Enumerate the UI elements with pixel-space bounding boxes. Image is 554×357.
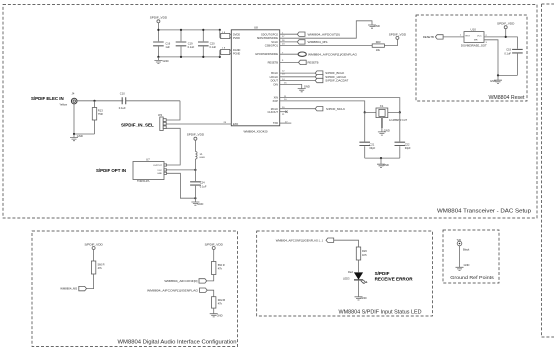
frame: adjacent sheet border (clipped at right edge) [542, 4, 554, 337]
wire CSB pin to pull-up R23 [280, 43, 373, 45]
power SPDIF_VDD (left pull-up) [84, 242, 103, 261]
resistor R25 [207, 262, 225, 281]
node junction at R13 top [93, 100, 95, 102]
svg-text:TORX147L: TORX147L [137, 179, 150, 183]
svg-text:47k: 47k [98, 266, 103, 270]
node junction at U10 VCC [505, 36, 507, 38]
node junction at J4 ground [73, 133, 75, 135]
svg-text:CLKOUT: CLKOUT [267, 110, 278, 114]
svg-text:R26: R26 [362, 249, 367, 253]
wire GPO0 pin [280, 52, 298, 54]
svg-text:U10: U10 [471, 28, 477, 32]
wire decoupling bottom rail [158, 56, 219, 58]
node WM8804_AIFCONF[0] [164, 279, 206, 283]
svg-text:R22-B: R22-B [218, 298, 226, 302]
wire LRCLK pin [280, 73, 316, 77]
wire TXD pin (n.c.) [280, 122, 292, 124]
wire reset ground rail [498, 74, 517, 76]
wire bead to VCC node and C24 [194, 159, 196, 181]
capacitor C24 [190, 180, 207, 198]
frame: Ground Ref Points box [443, 230, 499, 283]
svg-text:GND: GND [464, 263, 470, 267]
svg-text:WM8804_AIFCONF[1]/GENFLAG: WM8804_AIFCONF[1]/GENFLAG [308, 52, 358, 56]
ground at test point [456, 267, 464, 270]
frame: WM8804 Reset box [416, 15, 527, 101]
wire ground to DGND/PGND pins [220, 48, 232, 57]
svg-text:RST: RST [466, 36, 471, 38]
svg-text:Ground Ref Points: Ground Ref Points [450, 275, 494, 280]
svg-text:33pF: 33pF [405, 146, 411, 150]
svg-text:WM8804_AIFDOUT[0]: WM8804_AIFDOUT[0] [308, 32, 340, 36]
svg-text:SPDIF_VDD: SPDIF_VDD [497, 22, 515, 26]
ground at SDIN tie [368, 24, 380, 28]
wire CLKOUT pin (n.c.) [280, 111, 288, 116]
svg-text:J4: J4 [72, 92, 75, 96]
wire decoupling top rail [158, 29, 219, 31]
svg-text:PVDD: PVDD [233, 37, 240, 40]
svg-text:U8: U8 [254, 26, 258, 30]
svg-text:75R: 75R [98, 112, 103, 116]
svg-text:GND: GND [217, 313, 223, 317]
svg-text:S/PDIF_VDD: S/PDIF_VDD [205, 242, 224, 246]
svg-text:C22: C22 [405, 142, 410, 146]
svg-text:C19: C19 [506, 47, 511, 51]
svg-text:SCLK: SCLK [271, 40, 278, 44]
svg-text:X1: X1 [380, 104, 384, 108]
svg-text:27: 27 [282, 36, 285, 38]
ground at crystal case [378, 118, 390, 135]
node junctions at crystal [364, 111, 401, 113]
crystal X1 12.288MHz [365, 104, 408, 122]
svg-text:0.1uF: 0.1uF [188, 45, 195, 49]
svg-text:GND: GND [157, 173, 162, 175]
svg-text:1K5: 1K5 [362, 253, 367, 257]
ground at J4 [70, 134, 83, 141]
svg-text:WM8804_AIFCONF[1]/GENFLAG: WM8804_AIFCONF[1]/GENFLAG [147, 288, 199, 292]
wire DOUT pin [280, 79, 316, 81]
svg-text:GND: GND [361, 296, 367, 300]
frame: WM8804 Transceiver - DAC Setup sheet box [3, 5, 537, 219]
power SPDIF_VDD (right pull-up) [205, 242, 224, 261]
svg-text:12.288MHZ CUT: 12.288MHZ CUT [389, 119, 408, 122]
svg-text:RECEIVE ERROR: RECEIVE ERROR [375, 276, 414, 281]
connector J4 (RCA jack) [59, 92, 77, 107]
svg-text:0.1uF: 0.1uF [119, 106, 126, 110]
svg-text:SPDIF_VDD: SPDIF_VDD [187, 133, 205, 137]
capacitor C20 [198, 30, 217, 57]
svg-text:13: 13 [282, 73, 285, 75]
power SPDIF_VDD at optical receiver [187, 133, 205, 152]
svg-text:SPDIF_VDD: SPDIF_VDD [389, 33, 407, 37]
wire SDOUT pin 1 [280, 33, 298, 35]
wire pin 28 EXD from input select header [166, 122, 231, 124]
svg-text:WM8804_MS: WM8804_MS [308, 40, 328, 44]
svg-text:1uF: 1uF [165, 45, 170, 49]
node S/PDIF_LRCLK [315, 75, 346, 79]
svg-text:23: 23 [282, 43, 285, 45]
node junctions on decoupling rails [157, 29, 221, 58]
svg-text:560 R: 560 R [98, 262, 105, 266]
capacitor C21 (XOP load) [359, 112, 375, 158]
wire SCLK pin [280, 40, 298, 42]
svg-text:10k: 10k [376, 48, 381, 52]
svg-text:SPDIF_VDD: SPDIF_VDD [150, 16, 168, 20]
svg-text:12: 12 [282, 71, 285, 73]
ground at DIN [298, 85, 310, 92]
svg-text:GPO0/SW/IFMODE: GPO0/SW/IFMODE [255, 52, 278, 56]
wire R23 to supply [384, 39, 397, 45]
wire pull-down to R26 [207, 290, 214, 297]
svg-text:WM8804_AIFCONF[1]/GENFLAG [...: WM8804_AIFCONF[1]/GENFLAG [...] [276, 238, 323, 242]
frame: WM8804 S/PDIF Input Status LED box [257, 231, 433, 316]
wire J4 to C10 [77, 100, 123, 102]
svg-text:WM8804 Transceiver - DAC Setup: WM8804 Transceiver - DAC Setup [437, 209, 531, 215]
capacitor C16 [153, 30, 171, 57]
svg-text:0.1uF: 0.1uF [210, 45, 217, 49]
node junction U7 VCC [194, 169, 196, 171]
diode LED3 (red) [343, 270, 368, 284]
wire J4 down to ground rail [74, 104, 95, 134]
svg-text:S/PDIF: S/PDIF [375, 271, 390, 276]
node WM8804_MS [297, 40, 327, 44]
capacitor C10 [119, 92, 180, 110]
node WM8804_AIFDOUT[0] [297, 32, 339, 36]
wire U10 MR pin 3 to ground rail [484, 40, 498, 76]
resistor R24 [87, 261, 105, 289]
node S/PDIF_BCLK [315, 71, 344, 75]
wire test point to ground [459, 246, 461, 267]
power SPDIF_VDD (decoupling bank) [150, 16, 168, 30]
ground at LED [355, 296, 367, 300]
wire supply to DVDD/PVDD pins [220, 30, 232, 39]
svg-text:EXD: EXD [233, 123, 238, 126]
svg-text:1: 1 [460, 35, 462, 37]
node WM8804_AIFCONF[1]/GENFLAG (pull-down) [147, 288, 207, 292]
svg-text:0.1uF: 0.1uF [200, 184, 207, 188]
ground at crystal caps [377, 158, 389, 167]
wire SDIN pin to ground tie [280, 21, 372, 38]
svg-text:Black: Black [463, 247, 470, 251]
svg-text:C20: C20 [210, 41, 215, 45]
svg-text:S/PDIF_DACDAT: S/PDIF_DACDAT [325, 79, 348, 83]
svg-text:C10: C10 [120, 92, 125, 96]
inductor L1 ferrite bead [195, 152, 205, 160]
svg-text:U7: U7 [146, 157, 150, 161]
svg-text:S/PDIF_MCLK: S/PDIF_MCLK [326, 107, 345, 111]
wire U10 VCC pin 2 to supply rail [484, 35, 517, 49]
node junction U7 ground rail [194, 197, 196, 199]
svg-text:SDOUT/GPO2: SDOUT/GPO2 [261, 32, 279, 36]
svg-text:47k: 47k [218, 267, 223, 271]
connector T26 ground test point [457, 238, 462, 246]
optical receiver U7 TORX147 [133, 157, 167, 183]
svg-text:3: 3 [486, 42, 488, 44]
svg-text:47k: 47k [218, 302, 223, 306]
svg-text:GND: GND [304, 85, 310, 89]
wire DIN pin to ground [280, 83, 302, 89]
wire C10 to header pin 1 [166, 101, 180, 120]
svg-text:GND: GND [383, 163, 389, 167]
svg-text:GND: GND [163, 59, 169, 63]
svg-text:TXD: TXD [273, 121, 278, 125]
svg-text:33pF: 33pF [369, 146, 375, 150]
svg-text:WM8804_MS: WM8804_MS [60, 287, 77, 291]
wire MCLK pin [280, 107, 316, 109]
svg-text:C19: C19 [188, 41, 193, 45]
svg-text:CSB/GPO1: CSB/GPO1 [265, 44, 279, 48]
node RESETB (reset box) [423, 35, 443, 39]
power SPDIF_VDD (reset box) [497, 22, 515, 37]
svg-text:XOP: XOP [273, 99, 279, 103]
capacitor C22 (XIN load) [395, 112, 412, 158]
svg-text:GND: GND [197, 202, 203, 206]
svg-text:21: 21 [282, 114, 285, 116]
svg-text:Red: Red [348, 270, 353, 274]
svg-text:LRCLK: LRCLK [270, 75, 279, 79]
node WM8804_MS (pull-up) [60, 286, 86, 290]
svg-text:BCLK: BCLK [271, 71, 278, 75]
svg-text:GND: GND [384, 128, 390, 132]
svg-text:C21: C21 [370, 142, 375, 146]
node WM8804_AIFCONF[1]/GENFLAG (bidirectional) [298, 52, 358, 56]
svg-text:RESETB: RESETB [268, 60, 279, 64]
label S/PDIF RECEIVE ERROR [375, 271, 414, 281]
svg-text:PGND: PGND [233, 53, 240, 56]
svg-text:Yellow: Yellow [59, 102, 67, 106]
power SPDIF_VDD at R23 [389, 33, 407, 40]
capacitor C19 (reset) [504, 47, 522, 75]
svg-text:R23: R23 [376, 40, 381, 44]
svg-text:VCC: VCC [477, 36, 482, 38]
svg-text:S/PDIF ELEC IN: S/PDIF ELEC IN [31, 96, 64, 101]
svg-text:OUTPUT: OUTPUT [153, 165, 163, 167]
wire LED to ground [358, 280, 360, 297]
svg-text:9: 9 [282, 60, 284, 62]
svg-text:S/PDIF_VDD: S/PDIF_VDD [84, 242, 103, 246]
svg-text:560 R: 560 R [218, 263, 225, 267]
resistor R23 [372, 40, 384, 52]
svg-text:WM8804_XSO420: WM8804_XSO420 [243, 129, 267, 133]
node S/PDIF_DACDAT [315, 78, 348, 82]
ground at optical receiver [191, 198, 203, 206]
svg-text:600R: 600R [200, 157, 206, 159]
ground at reset box [490, 75, 502, 83]
node WM8804_AIFCONF[1]/GENFLAG (LED box) [276, 238, 334, 242]
node S/PDIF_MCLK [315, 107, 345, 111]
svg-text:LED3: LED3 [343, 276, 350, 280]
svg-text:RESETB: RESETB [308, 61, 319, 65]
svg-text:DOUT: DOUT [271, 79, 279, 83]
svg-text:L1: L1 [200, 153, 203, 156]
connector JP4 input select header [158, 114, 166, 131]
wire U7 VCC to supply node [167, 169, 196, 171]
svg-text:GND: GND [490, 79, 496, 83]
resistor R26 [212, 297, 226, 314]
svg-text:S/PDIF OPT IN: S/PDIF OPT IN [96, 168, 126, 173]
svg-text:WM8804 Reset: WM8804 Reset [489, 95, 526, 101]
svg-text:SDIN/SWIFMODE: SDIN/SWIFMODE [257, 36, 278, 40]
wire BCLK pin [280, 71, 316, 74]
wire RESETB to U10 [443, 35, 464, 37]
svg-text:WM8804 S/PDIF Input Status LED: WM8804 S/PDIF Input Status LED [339, 310, 422, 316]
svg-text:GND: GND [77, 134, 83, 138]
svg-text:DSV803RA3E_SOT: DSV803RA3E_SOT [461, 44, 487, 48]
svg-text:0.1uF: 0.1uF [504, 51, 511, 55]
wire XOP pin to crystal [280, 99, 365, 112]
svg-text:VCC: VCC [157, 170, 162, 172]
wire crystal caps ground rail [365, 157, 400, 159]
svg-text:MR: MR [474, 40, 478, 42]
svg-text:RESETB: RESETB [423, 35, 434, 39]
svg-text:JP4: JP4 [158, 114, 163, 117]
wire U7 GND to ground rail [167, 173, 196, 198]
ground at pull-down [210, 313, 223, 317]
svg-text:S/PDIF_IN_SEL: S/PDIF_IN_SEL [121, 123, 154, 128]
resistor R26 LED [356, 247, 367, 272]
svg-text:WM8804_AIFCONF[0]: WM8804_AIFCONF[0] [164, 279, 197, 283]
wire header pin 3 to optical receiver output [166, 128, 180, 165]
ground at decoupling bank [154, 57, 168, 64]
op-amp U10 reset supervisor [461, 28, 487, 48]
wire RESETB pin [280, 60, 299, 62]
svg-text:DIN: DIN [274, 82, 279, 86]
svg-text:WM8804 Digital Audio Interface: WM8804 Digital Audio Interface Configura… [118, 340, 237, 346]
node RESETB [299, 60, 319, 64]
capacitor C17 [176, 30, 195, 57]
svg-text:GND: GND [374, 24, 380, 28]
node junction on cap ground rail [380, 157, 382, 159]
svg-text:C16: C16 [165, 41, 170, 45]
svg-text:C24: C24 [200, 180, 205, 184]
wire to LED resistor [334, 240, 359, 247]
frame: WM8804 Digital Audio Interface Configuration box [32, 231, 238, 347]
resistor R13 [92, 101, 103, 134]
node junction reset ground [497, 74, 499, 76]
wire XIN pin to crystal [280, 96, 400, 113]
svg-text:R13: R13 [98, 109, 103, 113]
op-amp U8 WM8804 transceiver IC body [231, 26, 279, 134]
